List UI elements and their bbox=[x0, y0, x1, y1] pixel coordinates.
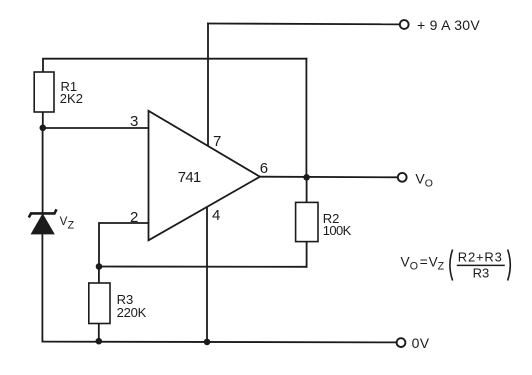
svg-text:6: 6 bbox=[260, 160, 268, 177]
wire node A to zener cathode bbox=[42, 128, 44, 212]
formula VO = VZ (R2+R3 over R3) bbox=[401, 249, 511, 280]
svg-text:0V: 0V bbox=[412, 335, 430, 351]
formula left parenthesis bbox=[450, 250, 453, 281]
wire R3 bottom stub bbox=[98, 324, 100, 342]
svg-text:V: V bbox=[429, 254, 438, 269]
wire pin 6 output bbox=[260, 176, 397, 179]
wire zener anode down to 0V rail bbox=[41, 234, 43, 342]
node D junction pin4 / 0V rail bbox=[204, 339, 211, 346]
wire R1 bottom stub bbox=[42, 112, 44, 128]
node E junction output / feedback / R2 bbox=[303, 174, 310, 181]
terminal VO bbox=[398, 173, 407, 182]
wire R2 bottom stub bbox=[306, 242, 308, 267]
svg-text:2K2: 2K2 bbox=[60, 91, 83, 106]
wire pin 4 to 0V rail bbox=[206, 208, 208, 342]
svg-text:=: = bbox=[420, 254, 428, 269]
zener diode VZ anode triangle bbox=[32, 215, 54, 234]
svg-text:220K: 220K bbox=[117, 305, 147, 320]
wire R2 top stub bbox=[306, 177, 308, 202]
formula right parenthesis bbox=[508, 250, 511, 281]
resistor R1 bbox=[34, 72, 54, 112]
wire bottom 0V rail bbox=[42, 341, 396, 344]
wire top supply rail bbox=[208, 23, 400, 26]
wire R3 top stub bbox=[98, 267, 100, 284]
zener diode VZ cathode bar bbox=[29, 209, 57, 217]
wire pin 2 bbox=[99, 223, 149, 267]
terminal 0V bbox=[397, 338, 406, 347]
node A junction R1 / zener / pin3 bbox=[40, 125, 47, 132]
svg-text:+ 9 A 30V: + 9 A 30V bbox=[417, 17, 480, 33]
svg-text:V: V bbox=[401, 254, 410, 269]
resistor R3 bbox=[89, 283, 110, 324]
svg-text:Z: Z bbox=[438, 261, 445, 273]
svg-text:Z: Z bbox=[68, 220, 75, 232]
svg-text:4: 4 bbox=[212, 207, 220, 224]
svg-text:R3: R3 bbox=[473, 265, 490, 280]
svg-text:O: O bbox=[410, 261, 418, 273]
resistor R2 bbox=[296, 202, 318, 241]
svg-text:O: O bbox=[425, 178, 433, 190]
svg-text:2: 2 bbox=[130, 209, 138, 226]
svg-text:V: V bbox=[60, 215, 68, 228]
svg-text:741: 741 bbox=[178, 169, 201, 186]
wire feedback horizontal R3 to R2 bbox=[99, 266, 307, 268]
terminal +9 A 30V bbox=[400, 20, 409, 29]
wire R1 top horizontal to feedback node bbox=[43, 59, 306, 72]
svg-text:R2+R3: R2+R3 bbox=[458, 249, 503, 264]
op-amp U1 741 triangle bbox=[149, 111, 260, 241]
svg-text:100K: 100K bbox=[323, 223, 352, 238]
node B junction pin2 / R3 / feedback bbox=[96, 263, 103, 270]
node C junction R3 bottom / 0V rail bbox=[96, 338, 103, 345]
wire pin 7 from triangle to top rail bbox=[207, 24, 209, 146]
svg-text:3: 3 bbox=[130, 113, 138, 130]
svg-text:7: 7 bbox=[213, 133, 221, 150]
formula fraction bar bbox=[457, 264, 505, 266]
wire feedback vertical down to output node bbox=[305, 59, 307, 178]
wire pin 3 bbox=[43, 127, 149, 129]
